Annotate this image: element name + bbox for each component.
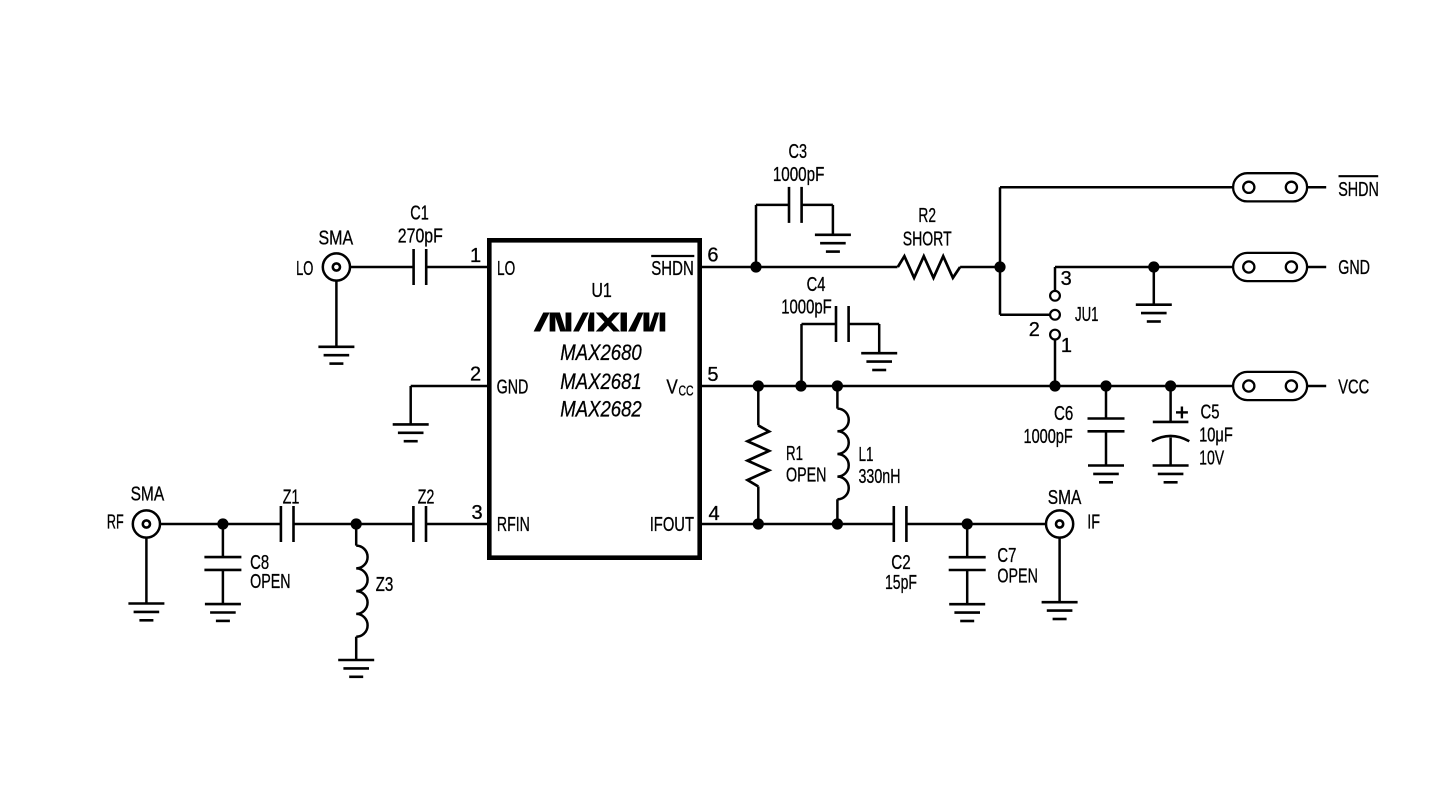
svg-text:270pF: 270pF	[398, 226, 443, 248]
svg-text:2: 2	[1029, 319, 1040, 341]
junction (R1 top)	[753, 380, 764, 391]
ground (C7)	[949, 604, 985, 621]
svg-text:SMA: SMA	[1048, 487, 1082, 509]
svg-text:Z3: Z3	[376, 574, 394, 596]
ground (GND pad)	[1136, 305, 1172, 322]
wire C1 to U1 pin 1	[426, 266, 487, 269]
svg-text:LO: LO	[497, 258, 515, 280]
svg-text:R2: R2	[918, 205, 936, 227]
SMA connector LO	[323, 253, 350, 280]
svg-text:SHDN: SHDN	[1338, 179, 1379, 201]
junction (C4)	[795, 380, 806, 391]
svg-text:1000pF: 1000pF	[1024, 426, 1073, 448]
svg-text:OPEN: OPEN	[786, 465, 827, 487]
junction (GND)	[1148, 261, 1159, 272]
svg-text:6: 6	[707, 245, 718, 267]
svg-text:330nH: 330nH	[859, 466, 901, 488]
svg-text:RFIN: RFIN	[497, 514, 530, 536]
SMA connector IF	[1046, 510, 1073, 537]
ground (C8)	[205, 604, 241, 621]
capacitor C2 15pF	[894, 506, 907, 542]
wire JU1 pin1 down to VCC row	[1054, 340, 1057, 387]
svg-text:VCC: VCC	[1338, 376, 1369, 398]
svg-text:3: 3	[471, 502, 482, 524]
junction (C7)	[962, 518, 973, 529]
svg-text:1000pF: 1000pF	[781, 297, 832, 319]
svg-text:C6: C6	[1054, 403, 1073, 425]
wire U1 pin 6 to R2	[702, 266, 898, 269]
svg-text:CC: CC	[679, 384, 694, 400]
junction (L1 bottom)	[832, 518, 843, 529]
ground (SMA RF)	[128, 604, 164, 621]
svg-text:Z1: Z1	[283, 487, 300, 509]
svg-text:RF: RF	[107, 511, 124, 533]
SMA connector RF	[133, 510, 160, 537]
svg-text:MAX2682: MAX2682	[560, 397, 641, 422]
svg-text:SHORT: SHORT	[903, 229, 952, 251]
junction (C5)	[1165, 380, 1176, 391]
svg-text:C3: C3	[789, 141, 808, 163]
svg-text:V: V	[666, 376, 678, 398]
ground (C4)	[861, 353, 897, 370]
wire SMA-LO to ground	[335, 280, 338, 346]
svg-text:MAX2680: MAX2680	[560, 340, 642, 365]
wire SMA-IF to ground	[1058, 537, 1061, 602]
svg-text:JU1: JU1	[1075, 304, 1099, 326]
junction (L1 top)	[832, 380, 843, 391]
wire JU1 pin3 up to GND row	[1054, 267, 1057, 291]
junction (C6)	[1100, 380, 1111, 391]
wire junction up to SHDN pad row	[999, 187, 1002, 267]
wire SMA-RF to ground	[145, 537, 148, 603]
svg-text:R1: R1	[786, 443, 803, 465]
junction (pin6/C3)	[750, 261, 761, 272]
C5 plus sign	[1176, 411, 1188, 413]
svg-text:10V: 10V	[1199, 448, 1225, 470]
svg-text:IFOUT: IFOUT	[650, 514, 694, 536]
pad SHDN	[1233, 173, 1307, 201]
jumper JU1	[1050, 291, 1060, 340]
pad GND	[1233, 253, 1307, 281]
ground (pin 2)	[393, 424, 429, 441]
svg-text:SMA: SMA	[131, 483, 165, 505]
MAXIM logo	[535, 313, 665, 331]
wire Z2 to U1 pin 3	[426, 523, 487, 526]
ground (SMA IF)	[1042, 602, 1078, 619]
svg-text:IF: IF	[1087, 512, 1100, 534]
pad VCC	[1233, 372, 1307, 400]
svg-text:5: 5	[707, 364, 718, 386]
wire SMA-LO to C1	[350, 266, 414, 269]
svg-text:LO: LO	[296, 258, 313, 280]
junction (R2/SHDN)	[994, 261, 1005, 272]
ground (C5)	[1153, 466, 1189, 483]
junction (Z3)	[351, 518, 362, 529]
svg-text:GND: GND	[1338, 257, 1370, 279]
C5 top plate	[1153, 421, 1189, 424]
svg-text:SMA: SMA	[319, 227, 354, 249]
svg-text:1000pF: 1000pF	[773, 164, 825, 186]
svg-text:4: 4	[708, 503, 719, 525]
junction (R1 bottom)	[753, 518, 764, 529]
svg-text:3: 3	[1061, 268, 1072, 290]
wire U1 pin 4 to C2	[702, 523, 894, 526]
svg-text:L1: L1	[859, 444, 874, 466]
wire Z1 to Z2	[294, 523, 414, 526]
op-amp/mixer U1 MAX2680/MAX2681/MAX2682	[489, 240, 699, 557]
wire U1 pin 2 to ground	[411, 385, 487, 388]
capacitor Z2	[413, 506, 426, 542]
ground (Z3)	[338, 660, 374, 677]
svg-text:MAX2681: MAX2681	[560, 369, 641, 394]
resistor R2 SHORT	[898, 256, 960, 278]
svg-text:C2: C2	[891, 552, 911, 574]
svg-text:SHDN: SHDN	[651, 258, 694, 280]
ground (C6)	[1088, 466, 1124, 483]
svg-text:C4: C4	[807, 274, 826, 296]
overline SHDN label	[1339, 175, 1379, 177]
svg-text:Z2: Z2	[418, 487, 435, 509]
ground (C3)	[815, 235, 851, 252]
wire JU1 pin3 to GND pad	[1055, 266, 1233, 269]
svg-text:C1: C1	[410, 203, 429, 225]
svg-text:C5: C5	[1201, 402, 1220, 424]
junction (JU1 pin1/VCC)	[1049, 380, 1060, 391]
wire SMA-RF to Z1	[160, 523, 281, 526]
junction (C8)	[217, 518, 228, 529]
svg-text:OPEN: OPEN	[997, 565, 1038, 587]
svg-text:OPEN: OPEN	[250, 571, 291, 593]
svg-text:1: 1	[1061, 335, 1072, 357]
C5 curved plate	[1152, 436, 1189, 441]
svg-text:10μF: 10μF	[1199, 425, 1233, 447]
overline SHDN (U1)	[651, 255, 694, 257]
capacitor C3	[755, 205, 758, 267]
wire U1 pin 5 to VCC pad	[702, 385, 1233, 388]
ground (SMA LO)	[318, 347, 354, 364]
wire C2 to SMA IF	[906, 523, 1046, 526]
svg-text:U1: U1	[591, 280, 612, 302]
svg-text:15pF: 15pF	[885, 572, 917, 594]
capacitor C1	[414, 249, 427, 285]
wire junction down to JU1 pin2	[999, 267, 1002, 315]
wire to SHDN pad	[1000, 186, 1233, 189]
svg-text:GND: GND	[497, 376, 529, 398]
capacitor Z1	[281, 506, 294, 542]
svg-text:2: 2	[470, 364, 481, 386]
svg-text:C7: C7	[997, 545, 1016, 567]
svg-text:1: 1	[470, 245, 481, 267]
